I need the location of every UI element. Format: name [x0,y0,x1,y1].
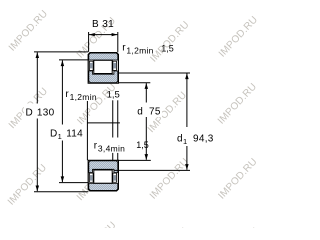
label r3,4min 1,5 (bottom) [93,138,128,153]
svg-text:1,5: 1,5 [136,140,149,150]
svg-text:1,2min: 1,2min [126,46,153,56]
B dimension line [89,34,117,36]
label d1 94,3 [175,127,215,146]
svg-text:B: B [92,19,99,30]
d arrow down [145,154,149,160]
svg-text:1: 1 [183,137,187,146]
svg-text:3,4min: 3,4min [98,144,125,154]
d1 arrow up [185,73,189,79]
cage right box (top section) [113,61,117,70]
D1 dimension line [61,60,63,124]
B arrow left [89,33,95,36]
svg-text:1,5: 1,5 [107,89,120,100]
d1 arrow down [185,164,189,170]
top cross-section outline [88,53,118,84]
cage right gray block (bottom) [113,175,116,181]
label D 130 [24,104,58,119]
svg-text:94,3: 94,3 [193,134,214,145]
d1 dimension line [186,73,188,127]
centerline between sections [87,122,120,124]
d arrow up [145,83,149,89]
roller (bottom section) [94,170,112,183]
d1 extension line top [119,72,191,74]
leader line mid (1,5 to bottom section) [112,100,114,137]
cage left box (top section) [90,61,94,70]
leader line right (1,5 to bottom section corner) [117,100,119,137]
roller (top section) [94,60,112,73]
d extension line top [119,82,151,84]
cage left box (bottom section) [90,173,94,182]
B extension line left [88,32,90,52]
D1 extension line top [59,59,89,61]
cage right box (bottom section) [113,173,117,182]
watermark tiles IMPOD.RU [6,8,262,240]
bottom cross-section outline [88,160,118,191]
D1 arrow down [61,176,65,182]
svg-text:31: 31 [102,19,114,30]
B extension line right [117,32,119,52]
D1 arrow up [61,60,65,66]
svg-text:D: D [26,108,34,119]
svg-text:d: d [177,134,183,145]
svg-text:d: d [137,107,143,118]
D extension line top [34,51,88,53]
svg-text:D: D [50,129,58,140]
leader line left (r1,2min to bottom section corner) [86,101,88,160]
D extension line bottom [34,191,88,193]
d dimension line [145,83,147,102]
B arrow right [112,33,118,36]
cage left gray block [90,63,93,69]
inner ring (top section, U shape) [89,71,118,83]
d1 extension line bottom [114,169,190,171]
svg-text:114: 114 [66,129,83,140]
D arrow up [36,52,40,58]
label D1 114 [49,125,90,141]
label d 75 [135,103,162,118]
D dimension line [36,52,38,103]
cage right gray block [113,63,116,69]
svg-text:1: 1 [58,132,62,141]
D1 extension line bottom [59,182,89,184]
svg-text:75: 75 [149,107,161,118]
svg-text:1,2min: 1,2min [70,92,97,102]
d extension line bottom [118,159,151,161]
cage left gray block (bottom) [90,175,93,181]
inner ring (bottom section, inverted U) [89,161,118,173]
svg-text:1,5: 1,5 [161,44,174,54]
D arrow down [36,186,40,192]
outer ring top band [89,53,118,60]
outer ring bottom band [89,184,118,191]
svg-text:130: 130 [37,108,55,119]
